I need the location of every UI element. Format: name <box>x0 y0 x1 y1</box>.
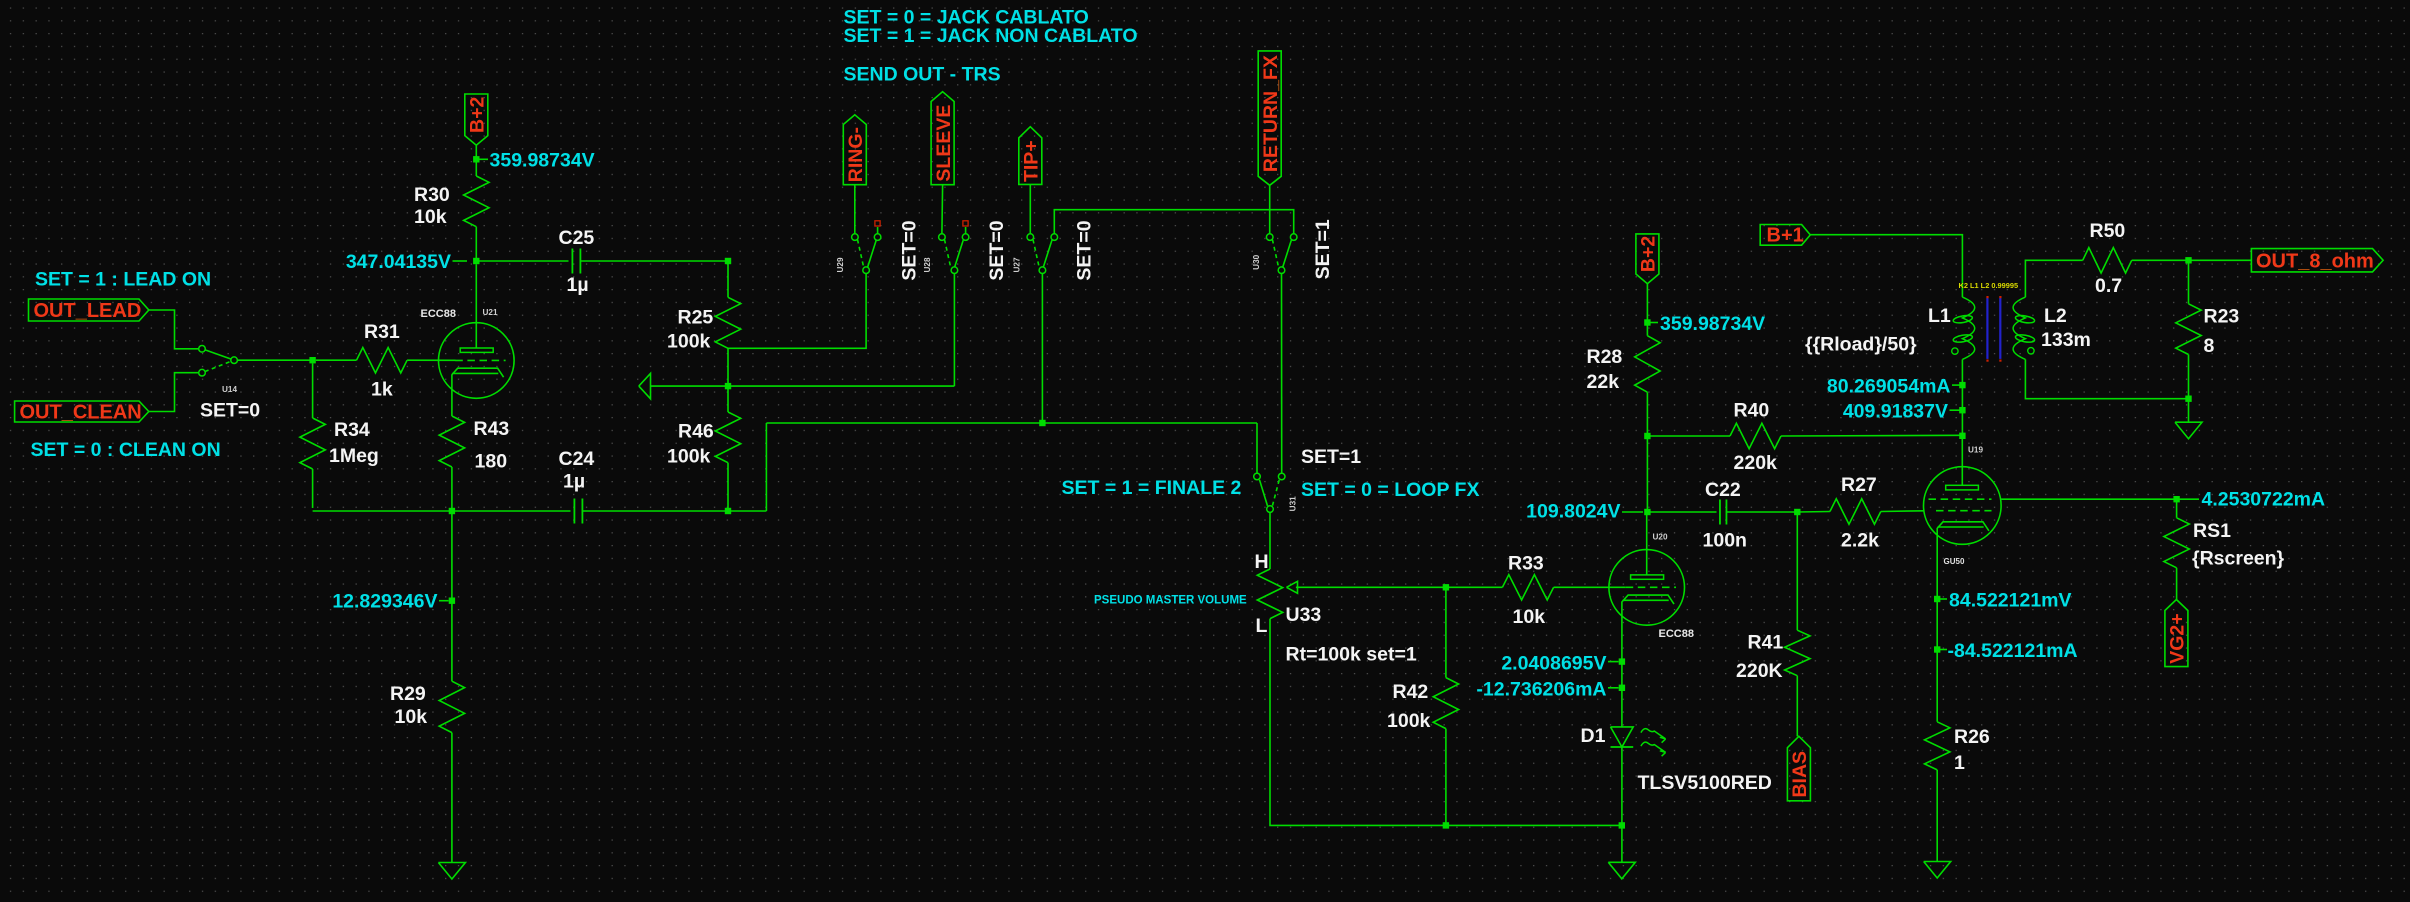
svg-text:10k: 10k <box>395 706 428 728</box>
wire bottom rail with C24 <box>313 510 571 512</box>
wire U14 common to node <box>237 359 309 361</box>
svg-text:22k: 22k <box>1587 371 1620 393</box>
wire OUT_CLEAN to switch U14 bottom <box>149 373 199 412</box>
svg-text:U28: U28 <box>923 257 932 272</box>
resistor R26 <box>1925 722 1950 770</box>
wire U27 right pin to send line <box>1054 210 1293 234</box>
node D1/bottom rail <box>1619 822 1625 828</box>
svg-text:L1: L1 <box>1928 305 1951 327</box>
transformer core <box>1986 298 1988 359</box>
svg-text:359.98734V: 359.98734V <box>490 150 595 172</box>
switch U27 <box>1033 240 1039 267</box>
svg-text:U31: U31 <box>1288 496 1297 511</box>
current label -84.522121mA <box>1940 649 1947 651</box>
switch U29 <box>858 240 864 267</box>
wire B+1 to L1 <box>1810 235 1962 297</box>
svg-text:R26: R26 <box>1954 726 1990 748</box>
flag B+2 (right) <box>1636 234 1659 284</box>
svg-text:OUT_CLEAN: OUT_CLEAN <box>20 402 142 424</box>
ground below bottom rail <box>1608 862 1635 879</box>
switch U31 <box>1260 480 1268 506</box>
svg-text:SET=0: SET=0 <box>1074 220 1096 280</box>
svg-text:133m: 133m <box>2041 329 2091 351</box>
flag B+2 (left) <box>465 94 488 145</box>
svg-text:409.91837V: 409.91837V <box>1843 401 1948 423</box>
svg-text:2.0408695V: 2.0408695V <box>1501 653 1606 675</box>
wire RETURN_FX to U30 <box>1269 185 1271 234</box>
svg-text:R31: R31 <box>364 321 400 343</box>
ground below R23 <box>2175 422 2202 439</box>
svg-text:PSEUDO MASTER VOLUME: PSEUDO MASTER VOLUME <box>1094 595 1247 607</box>
svg-text:U27: U27 <box>1012 257 1021 272</box>
svg-text:TIP+: TIP+ <box>1021 140 1043 182</box>
flag SLEEVE <box>931 92 954 185</box>
resistor R46 <box>727 386 729 412</box>
svg-text:SET = 1 = FINALE 2: SET = 1 = FINALE 2 <box>1062 477 1242 499</box>
capacitor C25 <box>571 249 573 274</box>
svg-text:U29: U29 <box>836 257 845 272</box>
wire FX line down to U31 left pin <box>1256 423 1258 473</box>
svg-text:B+2: B+2 <box>467 96 489 132</box>
node R23/L2 return <box>2185 396 2191 402</box>
pentode U19 GU50 <box>1924 467 2002 545</box>
svg-text:R33: R33 <box>1508 553 1544 575</box>
svg-text:B+2: B+2 <box>1638 236 1660 272</box>
resistor R29 <box>439 681 464 732</box>
wire B+2 to node <box>1646 284 1648 323</box>
wiper arrow at R25/R46 junction <box>639 373 651 398</box>
svg-text:VG2+: VG2+ <box>2167 613 2189 663</box>
node 12.829346V <box>449 598 455 604</box>
wire U20 plate up to node 109.8024V <box>1646 512 1648 575</box>
svg-text:220k: 220k <box>1734 452 1778 474</box>
svg-text:109.8024V: 109.8024V <box>1526 501 1620 523</box>
node R42/bottom rail <box>1443 822 1449 828</box>
flag RETURN_FX <box>1258 51 1281 185</box>
svg-text:180: 180 <box>475 451 508 473</box>
svg-text:R34: R34 <box>334 419 370 441</box>
ground below R29 <box>438 863 465 880</box>
wire D1 to bottom rail <box>1621 747 1623 862</box>
svg-text:SET=1: SET=1 <box>1301 446 1361 468</box>
wire L1 to node 80.269054mA <box>1961 359 1963 385</box>
svg-text:RS1: RS1 <box>2193 520 2231 542</box>
node R25/R46 junction <box>727 348 729 386</box>
svg-text:-12.736206mA: -12.736206mA <box>1476 679 1606 701</box>
node rail/R46 <box>725 508 731 514</box>
voltage label 359.98734V (left) <box>479 158 488 160</box>
node 359.98734V (right) <box>1644 319 1650 325</box>
node at R31/R34 junction <box>309 357 315 363</box>
svg-text:ECC88: ECC88 <box>1659 628 1694 640</box>
flag OUT_CLEAN <box>15 401 149 422</box>
svg-text:10k: 10k <box>414 206 447 228</box>
wire rail up to FX send line <box>765 423 767 511</box>
voltage label 84.522121mV <box>1940 598 1947 600</box>
svg-text:SET=0: SET=0 <box>899 220 921 280</box>
capacitor C22 <box>1719 500 1721 525</box>
svg-text:RETURN_FX: RETURN_FX <box>1260 55 1282 172</box>
svg-text:C22: C22 <box>1705 479 1741 501</box>
svg-text:SET = 1 : LEAD ON: SET = 1 : LEAD ON <box>35 269 211 291</box>
svg-text:H: H <box>1255 551 1269 573</box>
resistor R31 <box>316 359 357 361</box>
svg-text:GU50: GU50 <box>1944 557 1965 566</box>
svg-text:SET=1: SET=1 <box>1312 219 1334 279</box>
svg-text:359.98734V: 359.98734V <box>1660 313 1765 335</box>
wire U21 cathode to R43 <box>451 374 453 416</box>
svg-text:1: 1 <box>1954 752 1965 774</box>
svg-text:SLEEVE: SLEEVE <box>933 105 955 182</box>
wire to ground <box>2188 399 2190 422</box>
wire B+2 to node <box>475 145 477 159</box>
resistor R42 <box>1445 587 1447 677</box>
svg-text:R46: R46 <box>678 421 714 443</box>
svg-text:D1: D1 <box>1581 725 1606 747</box>
resistor R40 <box>1647 435 1730 437</box>
resistor R25 <box>727 261 729 297</box>
wire TIP+ to U27 <box>1029 184 1031 234</box>
U19 cathode <box>1937 522 1989 531</box>
node at C25/R25 <box>725 258 731 264</box>
resistor R33 <box>1502 575 1553 600</box>
svg-text:80.269054mA: 80.269054mA <box>1827 376 1951 398</box>
svg-text:B+1: B+1 <box>1767 225 1804 247</box>
flag VG2+ <box>2165 600 2188 667</box>
wire C25 to R25 node <box>580 260 728 262</box>
resistor R34 <box>300 418 325 469</box>
svg-text:100k: 100k <box>667 331 711 353</box>
wire U19 cathode down to R26 <box>1936 528 1938 722</box>
wire R25 bottom to switch U29 common <box>728 274 866 349</box>
svg-text:347.04135V: 347.04135V <box>346 251 451 273</box>
node C22/R27/R41 <box>1794 509 1800 515</box>
svg-text:R23: R23 <box>2204 306 2240 328</box>
wire R43 node down to R29 <box>451 511 453 681</box>
svg-text:1Meg: 1Meg <box>329 445 379 467</box>
LED D1 <box>1611 727 1634 747</box>
node rail/R43 <box>449 508 455 514</box>
svg-text:K2 L1 L2 0.99995: K2 L1 L2 0.99995 <box>1959 281 2019 290</box>
inductor L1 primary <box>1962 297 1974 359</box>
svg-text:U19: U19 <box>1968 446 1983 455</box>
svg-text:U20: U20 <box>1653 533 1668 542</box>
flag B+1 <box>1760 225 1810 246</box>
wire SLEEVE to U28 <box>941 185 944 234</box>
wire U19 screen grid to RS1 node <box>2001 498 2177 500</box>
svg-text:R27: R27 <box>1841 474 1877 496</box>
svg-text:R50: R50 <box>2090 220 2126 242</box>
svg-text:SET = 0 = LOOP FX: SET = 0 = LOOP FX <box>1301 479 1479 501</box>
svg-text:U14: U14 <box>222 385 237 394</box>
node 84.522121mV <box>1934 596 1940 602</box>
wire wiper to U28 common <box>651 385 955 387</box>
node 4.2530722mA <box>2173 496 2179 502</box>
svg-text:10k: 10k <box>1513 606 1546 628</box>
svg-text:84.522121mV: 84.522121mV <box>1949 590 2072 612</box>
flag BIAS <box>1787 736 1810 801</box>
svg-text:SEND OUT - TRS: SEND OUT - TRS <box>844 64 1001 86</box>
svg-text:12.829346V: 12.829346V <box>332 591 437 613</box>
node OUT/R50 <box>2185 257 2191 263</box>
svg-text:SET=0: SET=0 <box>200 400 260 422</box>
svg-text:ECC88: ECC88 <box>421 308 456 320</box>
node -84.522121mA <box>1934 646 1940 652</box>
svg-text:U33: U33 <box>1286 604 1322 626</box>
svg-text:OUT_8_ohm: OUT_8_ohm <box>2256 251 2374 273</box>
resistor R43 <box>439 416 464 467</box>
wire node to OUT_8_ohm flag <box>2189 259 2252 261</box>
wire OUT_LEAD to switch U14 top <box>149 310 199 349</box>
svg-text:R28: R28 <box>1587 346 1623 368</box>
svg-text:TLSV5100RED: TLSV5100RED <box>1638 772 1772 794</box>
svg-text:R30: R30 <box>414 184 450 206</box>
node U27/FX line <box>1039 420 1045 426</box>
wire FX line <box>766 422 1257 424</box>
svg-text:100k: 100k <box>1387 710 1431 732</box>
svg-text:U30: U30 <box>1252 254 1261 269</box>
resistor R30 <box>475 159 477 176</box>
switch U14 <box>205 350 231 359</box>
svg-text:L2: L2 <box>2044 305 2067 327</box>
flag OUT_LEAD <box>29 299 149 321</box>
svg-text:100n: 100n <box>1703 530 1747 552</box>
svg-text:L: L <box>1256 615 1268 637</box>
svg-text:R41: R41 <box>1748 632 1784 654</box>
svg-text:0.7: 0.7 <box>2095 275 2122 297</box>
node R40/R28 <box>1644 433 1650 439</box>
wire node down to R34 <box>312 363 314 418</box>
flag TIP+ <box>1019 127 1042 185</box>
resistor R28 <box>1646 323 1648 336</box>
wire node to C25 <box>476 260 568 262</box>
resistor R41 <box>1796 512 1798 630</box>
triode U21 ECC88 <box>475 264 477 348</box>
potentiometer U33 body <box>1257 569 1282 619</box>
wire node to C22 <box>1647 511 1716 513</box>
resistor R50 <box>2083 248 2132 273</box>
capacitor C24 <box>573 499 575 524</box>
inductor L2 secondary <box>2025 260 2082 297</box>
switch U28 <box>945 240 951 267</box>
wire RING- to U29 <box>854 185 856 234</box>
svg-text:C25: C25 <box>559 227 595 249</box>
node R40/U19 plate/L1 <box>1959 433 1965 439</box>
svg-text:-84.522121mA: -84.522121mA <box>1948 640 2078 662</box>
node 109.8024V <box>1644 509 1650 515</box>
flag OUT_8_ohm <box>2251 249 2383 272</box>
node 347.04135V <box>473 258 479 264</box>
svg-text:1µ: 1µ <box>563 471 585 493</box>
LED arrows of D1 <box>1641 729 1666 757</box>
svg-text:SET = 1 = JACK NON CABLATO: SET = 1 = JACK NON CABLATO <box>844 25 1138 47</box>
wire U31 common to potentiometer U33 <box>1269 512 1271 569</box>
wire C22 to R27 <box>1726 511 1797 513</box>
svg-text:100k: 100k <box>667 446 711 468</box>
svg-text:SET = 0 : CLEAN ON: SET = 0 : CLEAN ON <box>31 439 221 461</box>
svg-text:SET=0: SET=0 <box>986 220 1008 280</box>
voltage label 359.98734V (right) <box>1650 322 1658 324</box>
node 2.0408695V <box>1619 658 1625 664</box>
svg-text:OUT_LEAD: OUT_LEAD <box>34 300 142 322</box>
svg-text:R43: R43 <box>474 418 510 440</box>
current label 4.2530722mA <box>2179 498 2199 500</box>
svg-text:{{Rload}/50}: {{Rload}/50} <box>1805 334 1917 356</box>
svg-text:1µ: 1µ <box>567 274 589 296</box>
svg-text:U21: U21 <box>483 308 498 317</box>
triode U20 ECC88 <box>1609 550 1685 626</box>
ground below R26 <box>1924 862 1951 879</box>
open pin stub of U28 <box>965 227 967 234</box>
wire transformer node to U19 plate <box>1961 385 1963 436</box>
node -12.736206mA <box>1619 685 1625 691</box>
svg-text:8: 8 <box>2204 335 2215 357</box>
svg-text:1k: 1k <box>371 379 393 401</box>
resistor R27 <box>1797 511 1830 514</box>
node 409.91837V <box>1959 407 1965 413</box>
wire U20 cathode down to D1 <box>1621 601 1623 727</box>
flag RING- <box>843 115 866 185</box>
node 359.98734V (left) <box>473 156 479 162</box>
node 80.269054mA <box>1959 382 1965 388</box>
svg-text:Rt=100k set=1: Rt=100k set=1 <box>1286 644 1417 666</box>
svg-text:{Rscreen}: {Rscreen} <box>2192 548 2285 570</box>
wire U33 bottom to bottom rail <box>1270 619 1622 826</box>
svg-text:R25: R25 <box>678 307 714 329</box>
wire L2 bottom to R23 node <box>2025 359 2188 398</box>
wire wiper to R33 <box>1296 586 1503 588</box>
node R42/wiper <box>1443 584 1449 590</box>
switch U30 <box>1272 240 1278 267</box>
svg-text:220K: 220K <box>1736 660 1783 682</box>
svg-text:R42: R42 <box>1393 681 1429 703</box>
resistor RS1 <box>2176 499 2178 518</box>
svg-text:4.2530722mA: 4.2530722mA <box>2202 489 2326 511</box>
open pin stub of U29 <box>877 227 879 234</box>
wire U30 common to U31 right pin <box>1281 274 1283 474</box>
svg-text:RING-: RING- <box>845 127 867 182</box>
svg-text:BIAS: BIAS <box>1789 751 1811 798</box>
wire U27 common down to FX line <box>1041 274 1043 423</box>
svg-text:2.2k: 2.2k <box>1841 530 1879 552</box>
wiper arrow of U33 <box>1287 581 1298 593</box>
svg-text:R29: R29 <box>390 683 426 705</box>
svg-text:C24: C24 <box>559 448 595 470</box>
resistor R23 <box>2188 260 2190 304</box>
svg-text:R40: R40 <box>1734 400 1770 422</box>
